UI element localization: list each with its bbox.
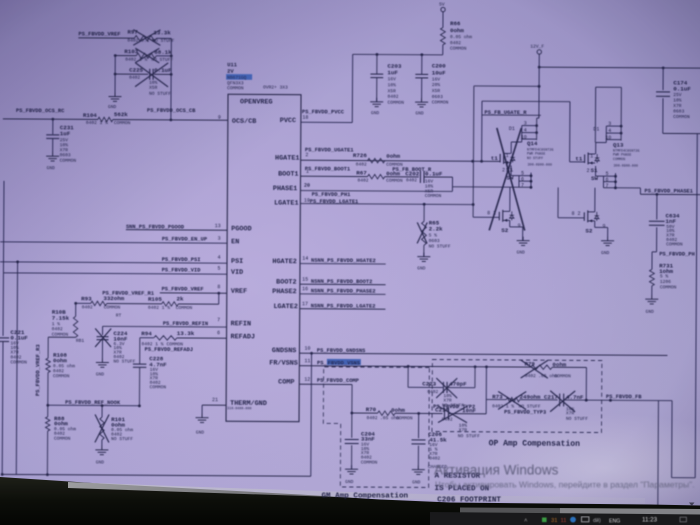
resistor R103 68.1k (NO STUFF) <box>115 55 136 57</box>
resistor R10B 7.15k <box>75 303 77 316</box>
capacitor C174 0.1uF <box>662 68 664 90</box>
node D1 drain pins 3,4,10 of Q13 <box>606 125 621 127</box>
transistor Q14 upper FET <box>499 154 501 162</box>
wire <box>301 121 352 123</box>
wire branch <box>474 85 539 87</box>
ground <box>423 253 425 257</box>
label S2 pin 9 of Q13 <box>594 221 596 227</box>
capacitor C202 0.1uF <box>419 171 421 183</box>
ground <box>101 358 103 362</box>
watermark Activate Windows <box>434 463 695 490</box>
transistor Q13 upper FET <box>584 154 586 162</box>
wire <box>170 38 172 119</box>
resistor R731 1ohm <box>649 269 654 286</box>
wire HGATE1 <box>301 160 500 161</box>
ground <box>651 295 653 299</box>
resistor R73 249ohm (NO STUFF) <box>486 399 506 401</box>
wire <box>537 117 539 119</box>
taskbar strip <box>460 508 700 516</box>
scrollbar strip <box>68 482 645 504</box>
ground <box>351 465 353 469</box>
resistor R66 0ohm <box>440 28 445 45</box>
label S2 pin 9 of Q14 <box>509 220 511 226</box>
dashed box GM Amp Compensation <box>323 367 429 488</box>
wire gate loop <box>481 101 483 161</box>
resistor R101 0ohm (NO STUFF) <box>101 406 103 417</box>
capacitor C200 10uF <box>421 55 423 74</box>
ground <box>522 237 524 241</box>
svg-text:˄: ˄ <box>524 519 528 525</box>
capacitor C217 4.7nF (NO STUFF) <box>559 394 561 407</box>
resistor R94 13.3k <box>140 337 154 339</box>
bottom labels above bezel <box>322 493 502 505</box>
resistor R105 2k <box>162 302 179 307</box>
capacitor C225 0.1uF (NO STUFF) <box>115 73 148 75</box>
wire page right border <box>695 134 697 478</box>
capacitor C206 footprint with 41.5k resistor <box>418 413 420 438</box>
power terminal 12V_F <box>537 50 541 54</box>
wire 12V rail <box>538 54 540 118</box>
scrollbar down arrow <box>689 503 695 507</box>
wire <box>202 404 226 406</box>
ground <box>52 152 54 156</box>
dashed box OP Amp Compensation <box>432 360 602 433</box>
capacitor C634 1nF <box>656 194 658 219</box>
wire BOOT1 <box>301 175 368 177</box>
power terminal 5V <box>441 7 445 11</box>
wire left border <box>2 181 5 273</box>
svg-text:dй): dй) <box>593 517 601 524</box>
capacitor C221 0.1uF <box>2 273 4 336</box>
svg-text:ENG: ENG <box>609 518 620 524</box>
resistor R70 0ohm <box>352 412 378 414</box>
wire PHASE1 <box>300 189 452 192</box>
resistor R67 0ohm <box>368 174 385 179</box>
node SW pins 5,6,7 of Q14 <box>510 165 512 175</box>
resistor R726 0ohm <box>368 158 385 163</box>
resistor R79 0ohm (NO STUFF) <box>531 365 553 370</box>
wire FB down <box>657 401 660 509</box>
capacitor C216 10nF (NO STUFF) <box>443 408 445 420</box>
transistor Q13 lower FET <box>583 212 585 220</box>
ground <box>101 446 103 450</box>
capacitor C231 1uF <box>52 119 54 134</box>
node SW pins 5,6,7 of Q13 <box>595 166 597 176</box>
wire <box>3 118 98 121</box>
resistor R108 0ohm <box>47 337 49 358</box>
ground <box>421 98 423 102</box>
resistor R88 0ohm <box>45 417 49 431</box>
wire <box>114 56 116 97</box>
capacitor C204 33nF <box>351 413 353 438</box>
monitor bezel bottom <box>0 477 700 525</box>
wire <box>615 187 640 189</box>
resistor R104 562k <box>98 117 113 121</box>
svg-text:31: 31 <box>551 518 557 524</box>
node D1 drain pins 3,4,10 of Q14 <box>522 125 537 127</box>
svg-text:11: 11 <box>561 518 567 524</box>
capacitor C203 1uF <box>376 54 378 73</box>
wire bootstrap to switch node <box>451 177 453 191</box>
cross-out X over Q14 <box>496 128 525 231</box>
wire <box>78 37 134 39</box>
ground <box>376 98 378 102</box>
wire <box>218 293 220 304</box>
capacitor C228 4.7nF <box>139 338 141 364</box>
capacitor C223 470pF (NO STUFF) <box>407 366 409 387</box>
capacitor C224 10nF (NO STUFF) <box>102 326 104 335</box>
ground <box>417 466 419 470</box>
wire to Q13 lower gate <box>557 187 559 217</box>
svg-text:11:23: 11:23 <box>642 517 658 524</box>
wire bottom rail <box>2 474 311 476</box>
ground <box>607 237 609 241</box>
resistor R65 2.2k (NO STUFF) <box>423 204 425 221</box>
wire <box>16 262 17 475</box>
wire <box>113 119 228 122</box>
wire <box>656 248 658 252</box>
ground <box>201 414 203 418</box>
tray icons <box>524 517 686 525</box>
wire LGATE1 <box>300 203 473 204</box>
wire <box>485 367 487 414</box>
transistor Q14 lower FET <box>498 212 500 220</box>
ground <box>114 93 116 97</box>
resistor R93 332ohm <box>91 301 107 305</box>
resistor R97 13.3k (NO STUFF) <box>134 36 156 41</box>
IC U11 OPENVREG body <box>226 94 301 421</box>
